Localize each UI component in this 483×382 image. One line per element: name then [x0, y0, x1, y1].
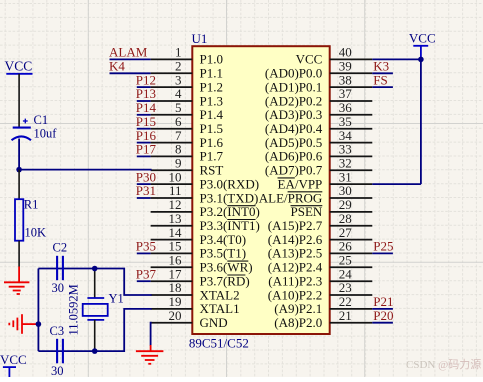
- svg-text:P3.6(WR): P3.6(WR): [200, 260, 253, 275]
- svg-text:P35: P35: [136, 239, 156, 254]
- wire net P37: [137, 280, 151, 282]
- svg-text:2: 2: [175, 59, 182, 74]
- U1 pin 11 stub and number: [151, 183, 193, 198]
- junction crystal/bottom wire: [92, 348, 98, 354]
- wire bottom (XTAL1 net): [38, 309, 151, 351]
- ground symbol (below R1): [4, 267, 29, 295]
- wire net K4: [110, 72, 151, 74]
- svg-text:(A15)P2.7: (A15)P2.7: [268, 218, 323, 233]
- wire pin40 to VCC: [372, 58, 421, 60]
- svg-text:10: 10: [169, 169, 182, 184]
- svg-text:P1.6: P1.6: [200, 135, 224, 150]
- U1 pin 10 stub and number: [151, 169, 193, 184]
- svg-text:(A8)P2.0: (A8)P2.0: [274, 315, 322, 330]
- svg-text:VCC: VCC: [409, 30, 436, 45]
- svg-text:P1.1: P1.1: [200, 66, 223, 81]
- svg-text:(A11)P2.3: (A11)P2.3: [268, 274, 322, 289]
- U1 pin 32 stub and number: [330, 156, 373, 171]
- svg-text:(A12)P2.4: (A12)P2.4: [268, 260, 323, 275]
- U1 pin 40 stub and number: [330, 45, 373, 60]
- wire net P12: [137, 86, 151, 88]
- wire net P16: [137, 142, 151, 144]
- svg-text:38: 38: [339, 72, 352, 87]
- wire GND pin20 down: [151, 323, 152, 346]
- svg-text:P25: P25: [373, 239, 393, 254]
- svg-text:VCC: VCC: [296, 52, 323, 67]
- svg-text:30: 30: [51, 364, 64, 377]
- U1 pin 30 stub and number: [330, 183, 373, 198]
- svg-text:P13: P13: [136, 86, 156, 101]
- svg-text:VCC: VCC: [5, 59, 33, 74]
- svg-text:31: 31: [339, 169, 352, 184]
- svg-text:CSDN @码力源: CSDN @码力源: [406, 357, 481, 371]
- svg-text:P3.1(TXD): P3.1(TXD): [200, 190, 259, 205]
- svg-text:P20: P20: [373, 308, 393, 323]
- svg-text:15: 15: [169, 239, 182, 254]
- wire VCC to C1: [18, 74, 20, 127]
- U1 left-side pin names: [200, 52, 260, 330]
- U1 pin 3 stub and number: [151, 72, 193, 87]
- svg-text:P1.3: P1.3: [200, 93, 223, 108]
- svg-text:32: 32: [339, 156, 352, 171]
- svg-text:11.0592M: 11.0592M: [67, 284, 81, 335]
- U1 pin 23 stub and number: [330, 280, 373, 295]
- wire net P30: [137, 183, 151, 185]
- U1 pin 35 stub and number: [330, 114, 373, 129]
- svg-text:FS: FS: [373, 72, 387, 87]
- U1 pin 34 stub and number: [330, 128, 373, 143]
- svg-text:P3.4(T0): P3.4(T0): [200, 232, 247, 247]
- svg-text:40: 40: [339, 45, 352, 60]
- svg-text:30: 30: [52, 281, 65, 295]
- junction crystal/top wire: [92, 266, 98, 272]
- svg-text:(A14)P2.6: (A14)P2.6: [268, 232, 323, 247]
- wire net P35: [137, 252, 151, 254]
- wire C1 to junction: [18, 139, 20, 170]
- wire net K3: [372, 72, 393, 74]
- svg-text:20: 20: [169, 308, 182, 323]
- svg-text:22: 22: [339, 294, 352, 309]
- svg-text:9: 9: [175, 156, 182, 171]
- svg-text:(AD3)P0.3: (AD3)P0.3: [265, 107, 322, 122]
- U1 right-side pin names: [259, 52, 323, 330]
- svg-text:17: 17: [169, 266, 183, 281]
- svg-text:P1.0: P1.0: [200, 52, 223, 67]
- U1 pin 8 stub and number: [151, 142, 193, 157]
- capacitor C3: [57, 339, 63, 364]
- wire net FS: [372, 86, 393, 88]
- power port VCC (bottom left): [3, 367, 16, 377]
- resistor R1: [15, 199, 23, 241]
- svg-text:(A9)P2.1: (A9)P2.1: [274, 301, 322, 316]
- U1 pin 18 stub and number: [151, 280, 193, 295]
- svg-text:VCC: VCC: [0, 352, 27, 367]
- wire net P14: [137, 114, 151, 116]
- svg-text:8: 8: [175, 142, 182, 157]
- U1 pin 21 stub and number: [330, 308, 373, 323]
- U1 pin 2 stub and number: [151, 59, 193, 74]
- junction pin40/VCC: [418, 57, 424, 63]
- U1 pin 17 stub and number: [151, 266, 193, 281]
- U1 pin 4 stub and number: [151, 86, 193, 101]
- svg-text:12: 12: [169, 197, 182, 212]
- wire junction to RST pin9: [19, 169, 152, 171]
- svg-text:K3: K3: [373, 59, 389, 74]
- svg-text:29: 29: [339, 197, 352, 212]
- svg-text:(A13)P2.5: (A13)P2.5: [268, 246, 323, 261]
- svg-text:(AD2)P0.2: (AD2)P0.2: [265, 93, 322, 108]
- U1 pin 36 stub and number: [330, 100, 373, 115]
- svg-text:U1: U1: [192, 31, 208, 46]
- power port VCC (top left): [6, 73, 32, 75]
- junction ground/left vertical: [36, 321, 42, 327]
- svg-text:39: 39: [339, 59, 352, 74]
- svg-text:10K: 10K: [25, 226, 47, 240]
- svg-text:24: 24: [339, 266, 353, 281]
- svg-text:P3.0(RXD): P3.0(RXD): [200, 176, 260, 191]
- U1 pin 13 stub and number: [151, 211, 193, 226]
- svg-text:C3: C3: [50, 324, 65, 338]
- svg-text:89C51/C52: 89C51/C52: [189, 336, 249, 351]
- svg-text:37: 37: [339, 86, 353, 101]
- svg-text:P1.2: P1.2: [200, 79, 223, 94]
- svg-text:10uf: 10uf: [34, 127, 58, 141]
- wire VCC down to EA/VPP: [420, 59, 422, 184]
- U1 pin 26 stub and number: [330, 239, 373, 254]
- U1 pin 9 stub and number: [151, 156, 193, 171]
- svg-text:P21: P21: [373, 294, 393, 309]
- svg-text:GND: GND: [200, 315, 228, 330]
- svg-text:RST: RST: [200, 163, 224, 178]
- U1 pin 28 stub and number: [330, 211, 373, 226]
- U1 pin 29 stub and number: [330, 197, 373, 212]
- U1 pin 19 stub and number: [151, 294, 193, 309]
- svg-text:P31: P31: [136, 183, 156, 198]
- wire R1 to ground: [18, 241, 20, 267]
- svg-text:6: 6: [175, 114, 182, 129]
- wire net P13: [137, 100, 151, 102]
- svg-text:EA/VPP: EA/VPP: [278, 176, 323, 191]
- wire net P20: [372, 322, 393, 324]
- svg-text:(AD6)P0.6: (AD6)P0.6: [265, 149, 323, 164]
- svg-text:R1: R1: [24, 198, 39, 212]
- svg-text:P12: P12: [136, 72, 156, 87]
- svg-text:P37: P37: [136, 266, 157, 281]
- capacitor C2: [57, 256, 63, 280]
- crystal Y1: [83, 269, 108, 352]
- U1 pin 6 stub and number: [151, 114, 193, 129]
- svg-text:P1.4: P1.4: [200, 107, 224, 122]
- svg-text:30: 30: [339, 183, 352, 198]
- svg-text:(AD5)P0.5: (AD5)P0.5: [265, 135, 322, 150]
- svg-text:Y1: Y1: [109, 292, 124, 306]
- svg-text:P17: P17: [136, 142, 157, 157]
- wire net P15: [137, 128, 151, 130]
- svg-text:14: 14: [169, 225, 183, 240]
- wire net P17: [137, 155, 151, 157]
- svg-text:XTAL2: XTAL2: [200, 287, 240, 302]
- U1 pin 39 stub and number: [330, 59, 373, 74]
- svg-text:ALAM: ALAM: [109, 45, 148, 60]
- IC U1 89C51/C52 body: [192, 46, 329, 334]
- wire EA/VPP (pin31) to VCC rail: [372, 183, 421, 185]
- U1 pin 37 stub and number: [330, 86, 373, 101]
- svg-text:36: 36: [339, 100, 353, 115]
- svg-text:P16: P16: [136, 128, 157, 143]
- wire junction to R1: [18, 170, 20, 200]
- U1 pin 31 stub and number: [330, 169, 373, 184]
- capacitor C1: [12, 119, 32, 141]
- power port VCC (top right): [413, 46, 428, 60]
- svg-text:(AD0)P0.0: (AD0)P0.0: [265, 66, 322, 81]
- svg-text:25: 25: [339, 253, 352, 268]
- svg-text:28: 28: [339, 211, 352, 226]
- svg-text:ALE/PROG: ALE/PROG: [259, 190, 323, 205]
- svg-text:4: 4: [175, 86, 182, 101]
- svg-text:35: 35: [339, 114, 352, 129]
- U1 pin 38 stub and number: [330, 72, 373, 87]
- junction C1/R1/RST: [16, 167, 22, 173]
- svg-text:C1: C1: [34, 113, 49, 127]
- U1 pin 25 stub and number: [330, 253, 373, 268]
- svg-text:(A10)P2.2: (A10)P2.2: [268, 287, 323, 302]
- svg-text:5: 5: [175, 100, 182, 115]
- svg-text:P15: P15: [136, 114, 156, 129]
- U1 pin 7 stub and number: [151, 128, 193, 143]
- svg-text:PSEN: PSEN: [291, 204, 323, 219]
- svg-text:K4: K4: [109, 59, 125, 74]
- svg-text:P3.2(INT0): P3.2(INT0): [200, 204, 260, 219]
- svg-text:33: 33: [339, 142, 352, 157]
- wire net P25: [372, 252, 393, 254]
- svg-text:27: 27: [339, 225, 353, 240]
- U1 pin 20 stub and number: [151, 308, 193, 323]
- svg-text:18: 18: [169, 280, 182, 295]
- svg-text:P1.7: P1.7: [200, 149, 224, 164]
- U1 pin 27 stub and number: [330, 225, 373, 240]
- overbars for active-low pin names: [227, 178, 322, 275]
- U1 pin 5 stub and number: [151, 100, 193, 115]
- U1 pin 16 stub and number: [151, 253, 193, 268]
- U1 pin 24 stub and number: [330, 266, 373, 281]
- wire left vertical (C2/C3 common to ground): [37, 269, 39, 352]
- svg-text:P3.3(INT1): P3.3(INT1): [200, 218, 260, 233]
- svg-text:P14: P14: [136, 100, 157, 115]
- U1 pin 15 stub and number: [151, 239, 193, 254]
- svg-text:P3.5(T1): P3.5(T1): [200, 246, 247, 261]
- U1 pin 12 stub and number: [151, 197, 193, 212]
- svg-text:XTAL1: XTAL1: [200, 301, 240, 316]
- svg-text:7: 7: [175, 128, 182, 143]
- U1 pin 1 stub and number: [151, 45, 193, 60]
- svg-text:26: 26: [339, 239, 353, 254]
- svg-text:11: 11: [169, 183, 182, 198]
- svg-text:(AD1)P0.1: (AD1)P0.1: [265, 79, 322, 94]
- svg-text:16: 16: [169, 253, 183, 268]
- svg-text:P1.5: P1.5: [200, 121, 223, 136]
- wire top (XTAL2 net): [38, 269, 151, 296]
- wire net ALAM: [110, 58, 151, 60]
- svg-text:23: 23: [339, 280, 352, 295]
- svg-text:P3.7(RD): P3.7(RD): [200, 274, 250, 289]
- svg-text:(AD4)P0.4: (AD4)P0.4: [265, 121, 323, 136]
- svg-text:C2: C2: [53, 241, 68, 255]
- U1 pin 33 stub and number: [330, 142, 373, 157]
- wire net P31: [137, 197, 151, 199]
- earth ground (rotated, left): [9, 314, 36, 334]
- svg-text:1: 1: [175, 45, 182, 60]
- svg-text:21: 21: [339, 308, 352, 323]
- U1 pin 14 stub and number: [151, 225, 193, 240]
- svg-text:13: 13: [169, 211, 182, 226]
- svg-text:(AD7)P0.7: (AD7)P0.7: [265, 163, 323, 178]
- svg-text:19: 19: [169, 294, 182, 309]
- wire net P21: [372, 308, 393, 310]
- svg-text:34: 34: [339, 128, 353, 143]
- svg-text:3: 3: [175, 72, 182, 87]
- svg-text:P30: P30: [136, 169, 156, 184]
- U1 pin 22 stub and number: [330, 294, 373, 309]
- ground symbol (pin 20): [136, 345, 164, 364]
